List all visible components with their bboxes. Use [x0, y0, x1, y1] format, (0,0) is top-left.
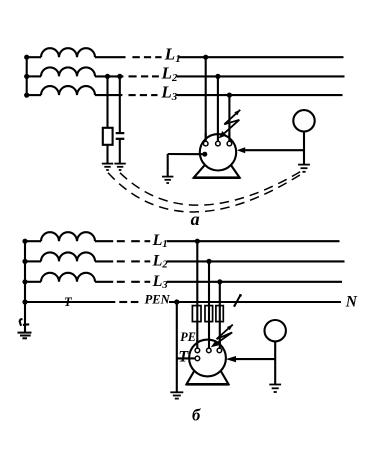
- svg-text:L3: L3: [160, 82, 177, 102]
- svg-text:T: T: [178, 349, 189, 366]
- svg-text:L3: L3: [152, 273, 168, 291]
- svg-text:L2: L2: [161, 64, 178, 84]
- svg-text:L1: L1: [152, 232, 168, 250]
- svg-text:L2: L2: [152, 252, 169, 270]
- svg-text:PE: PE: [180, 330, 196, 344]
- svg-text:a: a: [191, 209, 200, 229]
- svg-text:б: б: [192, 405, 201, 424]
- svg-text:PEN: PEN: [145, 293, 171, 307]
- svg-text:L1: L1: [164, 44, 181, 64]
- svg-text:N: N: [345, 293, 358, 310]
